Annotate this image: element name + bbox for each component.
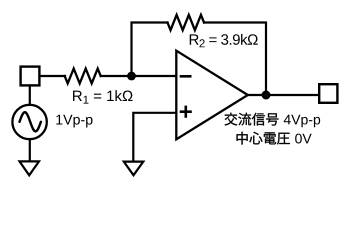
label R2 = 3.9k ohm bbox=[190, 34, 258, 47]
input terminal square bbox=[21, 67, 40, 86]
output terminal square bbox=[319, 84, 337, 103]
wire AC source to ground bbox=[29, 139, 31, 161]
wire non-inverting input bbox=[133, 113, 176, 161]
op-amp U1 bbox=[176, 51, 248, 140]
label R1 = 1k ohm bbox=[73, 90, 133, 103]
AC source V1 circle bbox=[12, 105, 46, 139]
op-amp inverting input minus sign bbox=[181, 75, 190, 78]
wire R1 to inverting input bbox=[101, 75, 176, 77]
ground at non-inverting input bbox=[124, 162, 144, 176]
AC source sine wave bbox=[20, 112, 41, 131]
resistor R1 bbox=[65, 69, 101, 84]
ground at AC source bbox=[20, 161, 40, 175]
wire feedback top right bbox=[204, 23, 266, 96]
label output annotation line 2 (center voltage 0V) bbox=[237, 132, 290, 145]
wire feedback vertical left bbox=[132, 23, 168, 77]
op-amp non-inverting input plus sign bbox=[181, 107, 191, 117]
node A junction dot bbox=[127, 72, 136, 81]
label AC source 1Vp-p bbox=[56, 115, 92, 128]
wire input terminal to AC source bbox=[29, 86, 31, 106]
label output annotation line 1 (AC signal 4Vp-p) bbox=[225, 113, 279, 126]
wire op-amp output bbox=[248, 94, 319, 96]
output node junction dot bbox=[262, 91, 271, 100]
resistor R2 bbox=[168, 15, 205, 30]
wire input terminal to R1 bbox=[40, 75, 66, 77]
